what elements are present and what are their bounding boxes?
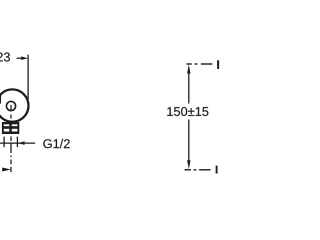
text 150±15 <box>167 107 208 116</box>
vertical dimension line 150±15 <box>187 64 190 169</box>
wall stub line at left edge <box>0 94 2 104</box>
top reference dash-dot line <box>186 63 212 65</box>
text G1/2 <box>43 139 70 148</box>
extension line for 23 dimension <box>27 55 29 100</box>
arrowhead pointing left at right tick <box>18 141 25 145</box>
threaded nipple G1/2 body <box>2 122 19 134</box>
top reference end bar <box>217 60 219 69</box>
vertical dash-dot centerline <box>10 105 12 172</box>
fixture body outer circle <box>0 89 29 121</box>
G1/2 dimension line <box>0 142 35 144</box>
bottom reference arrow pointing at centerline <box>2 168 11 172</box>
bottom reference end bar <box>216 166 218 174</box>
leader arrow for 23 dimension <box>17 56 28 60</box>
inner circle (outlet) <box>6 101 15 110</box>
dimension text 23 <box>0 53 10 62</box>
extension tick right <box>16 137 18 148</box>
extension tick left <box>3 137 5 148</box>
bottom reference dash-dot line <box>185 169 211 171</box>
